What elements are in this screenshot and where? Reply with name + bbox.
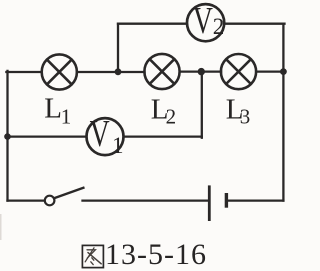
junction node right edge [280,68,287,75]
junction node between L1 and L2 [115,68,122,75]
svg-text:1: 1 [112,133,124,158]
lamp L3 [221,54,256,89]
wire bottom left to switch [8,199,45,201]
wire battery to right edge [228,199,284,201]
wire L2 to L3 [180,70,221,72]
battery long plate [208,185,211,221]
svg-text:3: 3 [240,105,251,129]
wire top right of V2 [224,23,284,25]
wire L3 to right edge [256,70,283,72]
junction node between L2 and L3 [198,68,205,75]
wire left vertical [6,71,8,201]
wire top left of V2 [118,23,187,25]
label L1 [44,92,71,128]
svg-text:2: 2 [166,104,177,128]
svg-text:L: L [44,92,62,124]
scan artifact faint left edge smudge [0,214,2,240]
svg-text:2: 2 [213,14,225,39]
wire vertical junction L2-L3 down to V1 row [201,72,203,138]
svg-text:1: 1 [61,105,72,129]
lamp L1 [42,54,77,89]
voltmeter V2 [187,0,224,42]
voltmeter V1 [87,113,124,158]
wire V2 branch vertical [117,24,119,72]
battery short plate [225,193,228,208]
caption glyph 图 (drawn) [82,245,103,267]
wire right vertical [282,24,284,201]
switch S [45,187,85,205]
label L2 [151,93,176,128]
wire V1 row right [123,135,201,137]
wire top-left to L1 [6,71,41,73]
svg-text:13-5-16: 13-5-16 [105,238,207,271]
svg-text:V: V [193,0,213,42]
label L3 [226,93,251,128]
lamp L2 [144,54,179,89]
junction node left edge V1 row [4,133,11,140]
svg-text:V: V [90,113,110,155]
wire switch to battery [83,199,208,201]
wire L1 to L2 [77,71,145,73]
wire V1 row left [8,135,87,137]
